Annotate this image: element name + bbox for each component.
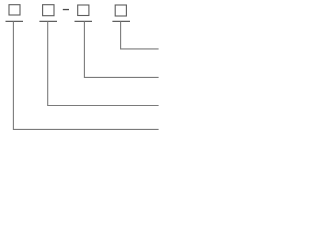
box 3 (third code field) [78,5,89,16]
underline tick below box 4 [112,20,130,22]
wire: leader 1 (vertical drop from box 1, elbow, horizontal to right) [13,21,158,129]
wire: leader 3 (vertical drop from box 3, elbow, horizontal to right) [84,21,158,77]
underline tick below box 3 [75,20,93,22]
dash separator between box 2 and box 3 [63,9,69,10]
box 2 (second code field) [43,5,54,16]
underline tick below box 2 [39,20,57,22]
wire: leader 4 (vertical drop from box 4, elbow, horizontal to right) [121,21,159,49]
box 4 (rightmost code field) [115,5,126,16]
box 1 (leftmost code field) [9,5,20,15]
underline tick below box 1 [6,20,24,22]
wire: leader 2 (vertical drop from box 2, elbow, horizontal to right) [48,21,159,105]
